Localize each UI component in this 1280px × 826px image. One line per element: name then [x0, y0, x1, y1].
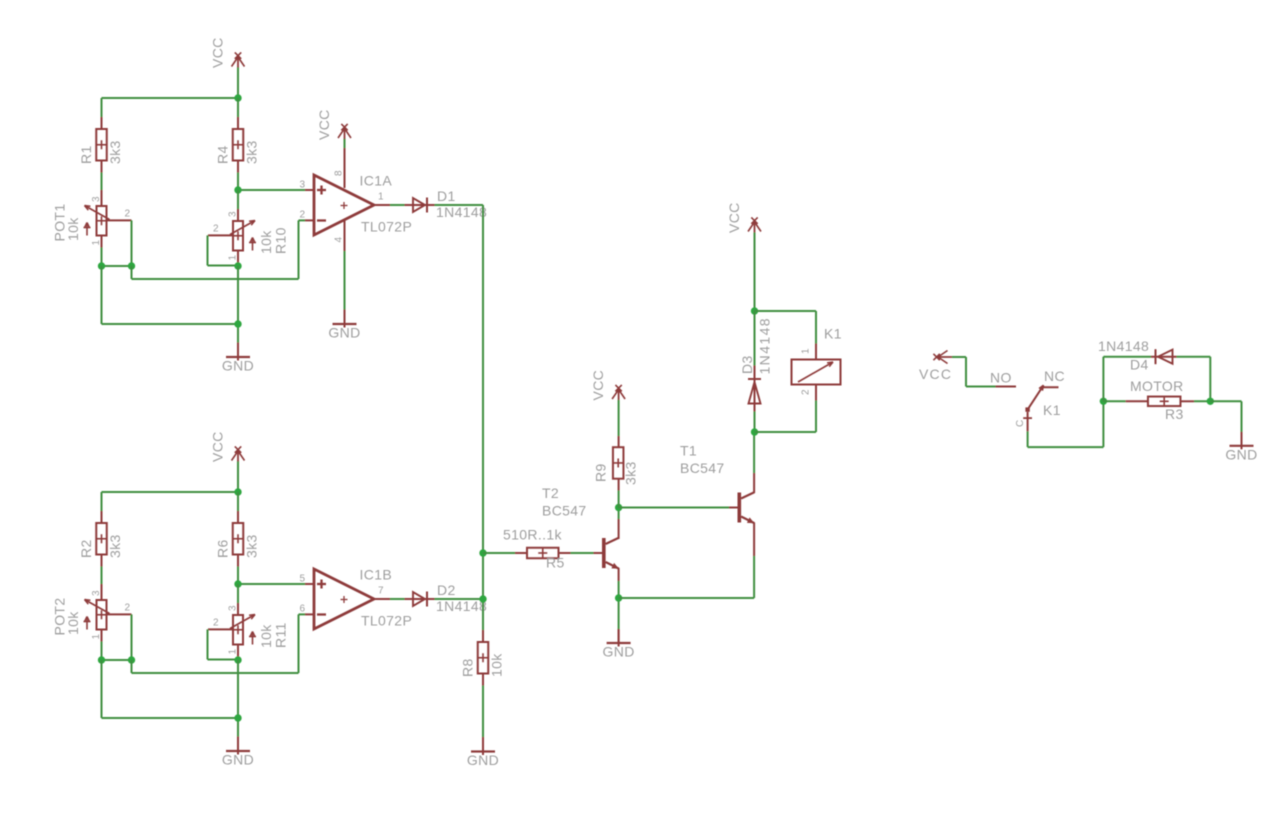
svg-text:10k: 10k [65, 611, 81, 635]
svg-text:TL072P: TL072P [361, 613, 412, 629]
resistor R8 10k [460, 630, 505, 686]
svg-text:3: 3 [300, 180, 306, 191]
svg-text:R2: R2 [78, 539, 94, 558]
svg-text:GND: GND [328, 325, 360, 341]
wire R1 to POT1 [101, 173, 103, 191]
svg-text:3: 3 [91, 590, 102, 596]
supply VCC relay [726, 202, 761, 233]
svg-text:3k3: 3k3 [623, 461, 639, 485]
wire R6 to op-amp +in [238, 567, 305, 585]
wire op-amp out to D1 [390, 204, 405, 206]
diode D4 1N4148 [1098, 338, 1177, 373]
junction coil top node [751, 307, 758, 314]
junction summing node to R5 [479, 549, 486, 556]
junction summing node D2 [479, 595, 486, 602]
svg-text:5: 5 [300, 574, 306, 585]
svg-text:VCC: VCC [316, 109, 332, 140]
wire R4 to op-amp +in [238, 173, 305, 191]
svg-text:R1: R1 [78, 145, 94, 164]
svg-text:IC1B: IC1B [360, 567, 393, 583]
svg-text:3: 3 [91, 196, 102, 202]
supply VCC 2 [210, 431, 245, 462]
wire node to R11 [237, 584, 239, 603]
potentiometer POT1 10k [52, 190, 132, 248]
svg-text:BC547: BC547 [542, 503, 587, 519]
svg-text:C: C [1015, 419, 1026, 427]
svg-text:3k3: 3k3 [107, 140, 123, 164]
wire node to R10 [237, 190, 239, 209]
svg-text:NC: NC [1044, 368, 1065, 384]
wire POT2 wiper to node [102, 614, 132, 660]
wire VCC rail 2 [102, 461, 239, 492]
wire POT1 pin1 to node [101, 248, 103, 267]
trimmer R11 10k [208, 603, 289, 657]
wire POT1 wiper to node [102, 220, 132, 266]
wire summing node vertical [482, 205, 484, 630]
svg-text:2: 2 [300, 210, 306, 221]
wire R9 to VCC [618, 400, 620, 436]
svg-text:D1: D1 [437, 188, 456, 204]
svg-text:K1: K1 [1043, 402, 1061, 418]
svg-text:VCC: VCC [210, 431, 226, 462]
wire contact C to motor node [1028, 401, 1104, 447]
svg-text:1N4148: 1N4148 [436, 204, 487, 220]
junction coil bottom node [751, 428, 758, 435]
svg-text:1: 1 [91, 634, 102, 640]
relay contact K1 [990, 368, 1065, 431]
junction pot wiper node [128, 262, 135, 269]
svg-text:R9: R9 [593, 463, 609, 482]
ground GND op-amp [328, 310, 360, 341]
svg-text:D3: D3 [739, 355, 755, 374]
junction op-amp +in node [234, 186, 241, 193]
resistor R4 3k3 [215, 117, 260, 173]
ground GND motor [1225, 432, 1257, 463]
svg-text:R3: R3 [1165, 406, 1184, 422]
svg-text:VCC: VCC [590, 370, 606, 401]
wire T1 emitter to rail [619, 523, 755, 599]
svg-text:VCC: VCC [726, 202, 742, 233]
supply VCC R9 [590, 370, 625, 401]
junction ground rail [234, 320, 241, 327]
junction pot wiper node [128, 656, 135, 663]
op-amp IC1A TL072P [300, 148, 413, 251]
wire R3 to right node [1194, 400, 1210, 402]
svg-text:VCC: VCC [210, 37, 226, 68]
svg-text:1: 1 [228, 649, 239, 655]
wire T2 collector node to R9 [618, 491, 620, 508]
wire R5 to T2 base [571, 552, 594, 554]
svg-text:GND: GND [222, 358, 254, 374]
wire VCC rail 1 [102, 67, 239, 98]
wire VCC rail to R6 [237, 492, 239, 511]
trimmer R10 10k [208, 209, 289, 263]
resistor R2 3k3 [78, 511, 123, 567]
svg-text:MOTOR: MOTOR [1130, 378, 1184, 394]
svg-text:VCC: VCC [919, 366, 952, 382]
supply VCC 1 [210, 37, 245, 68]
wire D1 to summing node [435, 204, 484, 206]
svg-text:3k3: 3k3 [107, 534, 123, 558]
wire T2 collector node to T1 base [619, 507, 729, 509]
wire D2 to summing node [435, 598, 484, 600]
svg-text:R6: R6 [215, 539, 231, 558]
svg-text:R5: R5 [546, 555, 565, 571]
svg-text:NO: NO [990, 370, 1012, 386]
wire R10 pin1 to node [237, 263, 239, 267]
svg-text:IC1A: IC1A [360, 173, 393, 189]
svg-text:TL072P: TL072P [361, 219, 412, 235]
junction pot node left [98, 656, 105, 663]
wire coil branch top [755, 311, 817, 344]
resistor R5 510R..1k [503, 527, 571, 571]
relay coil K1 [792, 326, 842, 401]
svg-text:2: 2 [125, 209, 131, 220]
junction emitter rail [615, 594, 622, 601]
svg-text:1: 1 [91, 240, 102, 246]
svg-text:8: 8 [334, 170, 345, 176]
svg-text:3k3: 3k3 [244, 534, 260, 558]
wire R11 pin1 to node [237, 657, 239, 661]
svg-text:D2: D2 [437, 582, 456, 598]
transistor T2 BC547 [542, 485, 619, 569]
wire VCC to coil node [754, 233, 756, 312]
junction ground rail [234, 714, 241, 721]
resistor R1 3k3 [78, 117, 123, 173]
svg-text:GND: GND [603, 644, 635, 660]
wire R8 to GND [482, 686, 484, 738]
wire R2 to POT2 [101, 567, 103, 585]
supply VCC op-amp [316, 109, 351, 140]
junction R10 node [234, 262, 241, 269]
wire T2 emitter to GND [618, 568, 620, 629]
wire coil pin2 to node [755, 401, 817, 433]
svg-text:GND: GND [1225, 446, 1257, 462]
wire pot wiper to op-amp -in [132, 220, 306, 279]
junction motor right node [1207, 398, 1214, 405]
svg-text:510R..1k: 510R..1k [503, 527, 562, 543]
wire motor node up to D4 [1103, 357, 1151, 402]
svg-text:4: 4 [334, 237, 345, 243]
wire motor node to R3 [1103, 400, 1125, 402]
svg-text:1: 1 [378, 192, 384, 203]
svg-text:1N4148: 1N4148 [1098, 338, 1149, 354]
wire summing node to R5 [483, 552, 515, 554]
svg-text:1N4148: 1N4148 [757, 317, 773, 374]
svg-text:2: 2 [213, 224, 219, 235]
wire POT2 pin1 to node [101, 642, 103, 661]
svg-text:10k: 10k [65, 217, 81, 241]
svg-text:R4: R4 [215, 145, 231, 164]
wire VCC to NO contact [952, 357, 996, 387]
svg-text:2: 2 [125, 603, 131, 614]
wire VCC rail to R2 [101, 492, 103, 511]
svg-text:K1: K1 [824, 326, 842, 342]
diode D3 1N4148 flyback [739, 311, 773, 412]
svg-text:6: 6 [300, 604, 306, 615]
junction VCC rail 2 [234, 488, 241, 495]
resistor R6 3k3 [215, 511, 260, 567]
wire op-amp V+ to VCC [344, 139, 346, 149]
svg-text:GND: GND [222, 752, 254, 768]
wire D4 to motor right node [1177, 357, 1211, 402]
wire D3 anode to node [754, 412, 756, 433]
svg-text:3: 3 [228, 605, 239, 611]
wire VCC rail to R1 [101, 98, 103, 117]
junction R11 node [234, 656, 241, 663]
svg-text:R8: R8 [460, 658, 476, 677]
svg-text:BC547: BC547 [680, 460, 725, 476]
wire op-amp V- to GND [344, 251, 346, 310]
svg-text:R10: R10 [273, 227, 289, 254]
svg-text:R11: R11 [273, 622, 289, 648]
svg-text:T1: T1 [680, 443, 697, 459]
junction T2 collector node [615, 504, 622, 511]
motor R3 [1126, 378, 1194, 422]
junction motor left node [1100, 398, 1107, 405]
junction VCC rail 1 [234, 94, 241, 101]
svg-text:7: 7 [378, 586, 384, 597]
wire ground rail [102, 660, 239, 737]
svg-text:3: 3 [228, 211, 239, 217]
junction op-amp +in node [234, 580, 241, 587]
wire T2 collector [618, 508, 620, 540]
svg-text:T2: T2 [542, 485, 559, 501]
svg-text:10k: 10k [489, 653, 505, 677]
diode D2 1N4148 [405, 582, 488, 614]
ground GND 2 [222, 737, 254, 768]
wire op-amp out to D2 [390, 598, 405, 600]
svg-text:1: 1 [228, 255, 239, 261]
svg-text:2: 2 [801, 389, 812, 395]
ground GND 1 [222, 343, 254, 374]
wire right node to GND [1210, 401, 1241, 435]
diode D1 1N4148 [405, 188, 488, 220]
wire R11 wiper loop [208, 629, 239, 659]
resistor R9 3k3 [593, 436, 639, 491]
wire pot wiper to op-amp -in [132, 614, 306, 673]
ground GND T2 [603, 629, 635, 660]
wire ground rail [102, 266, 239, 343]
op-amp IC1B TL072P [300, 567, 413, 630]
svg-text:3k3: 3k3 [244, 140, 260, 164]
svg-text:1N4148: 1N4148 [436, 598, 487, 614]
svg-text:D4: D4 [1130, 357, 1149, 373]
wire VCC rail to R4 [237, 98, 239, 117]
svg-text:GND: GND [467, 752, 499, 768]
svg-text:2: 2 [213, 618, 219, 629]
svg-text:1: 1 [801, 348, 812, 354]
ground GND R8 [467, 737, 499, 768]
wire T1 collector to relay node [753, 432, 755, 493]
potentiometer POT2 10k [52, 584, 132, 642]
junction pot node left [98, 262, 105, 269]
transistor T1 BC547 [680, 443, 754, 524]
supply VCC contact [919, 351, 952, 383]
wire R10 wiper loop [208, 235, 239, 265]
